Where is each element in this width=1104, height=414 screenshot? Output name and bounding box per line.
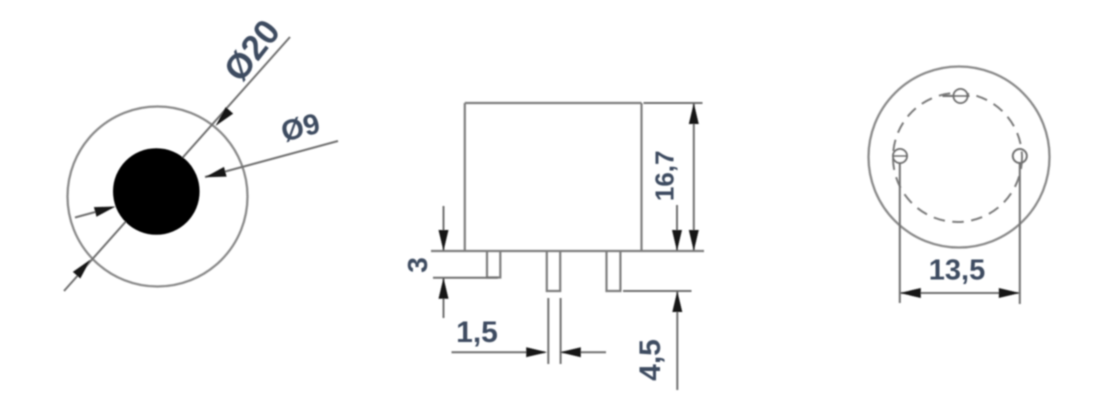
arrowhead 16,7 top xyxy=(689,103,699,124)
leader line Ø9 right segment xyxy=(205,141,338,177)
leader line Ø20 xyxy=(64,37,290,291)
dimension line 16,7 xyxy=(693,104,695,250)
arrowhead 3 lower (points up at pin bottom) xyxy=(439,278,449,299)
extension line from right pin xyxy=(1019,164,1021,305)
body outline xyxy=(465,103,642,251)
svg-text:16,7: 16,7 xyxy=(649,150,679,201)
extension line from left pin xyxy=(899,164,901,304)
svg-text:3: 3 xyxy=(402,257,433,273)
label 16,7 xyxy=(649,150,679,201)
extension line right pin bottom xyxy=(623,290,692,292)
dimension line 4,5 lower segment xyxy=(676,292,678,390)
arrowhead 4,5 upper (points down at body bottom) xyxy=(672,230,682,251)
arrowhead 1,5 right (points left at pin right edge) xyxy=(560,347,581,357)
arrowhead Ø20 lower xyxy=(73,260,91,279)
outer circle housing xyxy=(869,67,1050,248)
arrowhead 1,5 left (points right at pin left edge) xyxy=(526,347,547,357)
svg-text:Ø9: Ø9 xyxy=(278,108,324,149)
extension line left pin bottom xyxy=(433,277,498,279)
label Ø9 xyxy=(278,108,324,149)
svg-text:1,5: 1,5 xyxy=(456,316,498,349)
dimension line 1,5 right segment xyxy=(562,351,606,353)
outer circle (Ø20 housing) xyxy=(68,107,248,287)
dimension line 3 lower segment xyxy=(443,279,445,319)
svg-text:4,5: 4,5 xyxy=(634,339,667,381)
label 13,5 xyxy=(929,255,985,287)
left pin xyxy=(487,251,500,278)
arrowhead Ø20 upper xyxy=(216,107,234,126)
arrowhead 16,7 bottom xyxy=(689,230,699,251)
arrowhead 4,5 lower (points up at pin bottom) xyxy=(672,291,682,312)
label 3 xyxy=(402,257,433,273)
middle pin continuation lines xyxy=(548,298,560,364)
top pin circle xyxy=(954,89,968,103)
arrowhead 13,5 right (points right) xyxy=(999,288,1020,298)
label 1,5 xyxy=(456,316,498,349)
extension line body top xyxy=(644,102,703,104)
inner black circle (Ø9 sound hole) xyxy=(113,148,200,235)
label 4,5 xyxy=(634,339,667,381)
dimension line 13,5 xyxy=(901,292,1019,294)
dimension line 4,5 upper segment xyxy=(676,205,678,250)
arrowhead Ø9 right xyxy=(205,167,227,177)
right pin circle xyxy=(1013,149,1027,163)
dimension line 1,5 left segment xyxy=(452,351,546,353)
left pin tick line xyxy=(894,155,907,157)
right pin xyxy=(607,251,621,291)
dashed pin pitch circle xyxy=(893,93,1022,222)
top pin tick line xyxy=(943,95,970,97)
middle pin upper part xyxy=(547,251,560,291)
body bottom line xyxy=(431,250,704,252)
left pin circle xyxy=(893,149,907,163)
dimension line 3 upper segment xyxy=(443,206,445,250)
arrowhead Ø9 left xyxy=(94,207,116,217)
leader line Ø9 left segment xyxy=(75,208,112,218)
arrowhead 3 upper (points down at body bottom) xyxy=(439,230,449,251)
label Ø20 xyxy=(216,13,287,89)
svg-text:13,5: 13,5 xyxy=(929,255,985,287)
arrowhead 13,5 left (points left) xyxy=(900,288,921,298)
